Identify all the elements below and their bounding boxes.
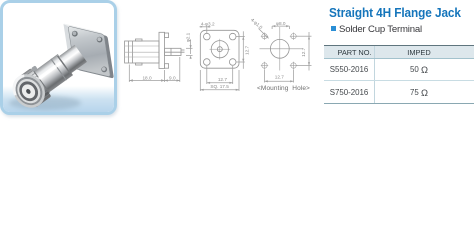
svg-text:φ8.0: φ8.0 [276,21,286,26]
svg-text:<Mounting Hole>: <Mounting Hole> [257,85,310,92]
svg-text:12.7: 12.7 [301,47,306,57]
svg-text:12.7: 12.7 [244,45,249,55]
svg-text:4-φ3.2: 4-φ3.2 [201,22,215,27]
svg-text:φ2.1: φ2.1 [186,32,191,42]
svg-text:4-φ1.0: 4-φ1.0 [250,17,264,30]
svg-text:12.7: 12.7 [275,75,285,80]
svg-text:18.0: 18.0 [142,75,152,80]
svg-text:9.0: 9.0 [169,75,176,80]
svg-text:12.7: 12.7 [218,77,228,82]
svg-text:SQ. 17.5: SQ. 17.5 [210,84,229,89]
